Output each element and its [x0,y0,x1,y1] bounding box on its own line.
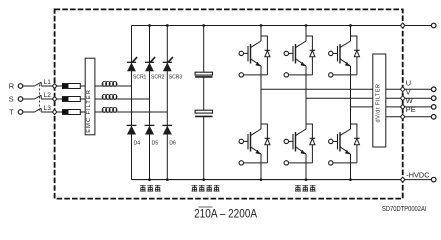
rectifier column 2 [149,26,151,180]
breaker blade R [35,82,42,86]
wire coil1 to bridge [117,85,131,87]
IGBT Q3 top leg3 [329,26,360,78]
inductor coil 1 [102,81,117,86]
wire L2 to fuse [57,98,62,100]
breaker mechanical link (dashed) [38,85,40,113]
wire S to breaker [23,98,35,100]
wire coil3 to bridge [117,111,167,113]
svg-text:SCR3: SCR3 [169,74,183,80]
diode D4 [127,125,137,134]
phase W wire [351,106,373,108]
capacitor C1 [195,72,212,75]
IGBT Q4 bottom leg1 [239,114,270,166]
inductor coil 2 [102,94,117,99]
node diamond DC- [400,177,405,182]
svg-text:210A – 2200A: 210A – 2200A [194,207,258,221]
terminal R [18,84,23,89]
wire T to node [41,111,52,113]
svg-text:D4: D4 [134,140,141,146]
svg-text:T: T [9,107,14,116]
terminal PE [431,115,436,120]
terminal V [431,96,436,101]
svg-text:SD70DTP0002AI: SD70DTP0002AI [382,204,427,213]
terminal T [18,110,23,115]
DC+ top rail [132,25,403,27]
rectifier column 1 [131,26,133,180]
IGBT Q5 bottom leg2 [284,114,315,166]
thyristor SCR2 [145,57,155,71]
junction dots top rail [148,24,151,27]
DC- output wire [403,179,432,181]
node diamond L2 [52,97,57,102]
svg-text:SCR2: SCR2 [151,74,165,80]
diode D5 [145,125,155,134]
node diamond V [400,96,405,101]
junction dots bottom rail [148,178,151,181]
svg-text:L2: L2 [44,92,52,99]
caption DC bus (CJK) [192,185,198,191]
terminal W [431,105,436,110]
W wire out [386,106,432,108]
node diamond L1 [52,84,57,89]
svg-text:S: S [9,94,14,103]
fuse F1 [62,83,80,89]
diode D6 [162,125,172,134]
svg-text:L3: L3 [44,105,52,112]
capacitor middle lead [203,78,205,111]
dv/dt filter box [373,54,386,147]
svg-text:SCR1: SCR1 [133,74,147,80]
node diamond W [400,104,405,109]
svg-text:-HVDC: -HVDC [406,170,430,179]
wire L3 to fuse [57,111,62,113]
EMC filter box [85,58,95,135]
leg 3 column segments [350,75,352,129]
wire T to breaker [23,111,35,113]
fuse F2 [62,96,80,102]
wire EMC to coil 2 [95,98,102,100]
svg-text:V: V [406,87,411,96]
DC- bottom rail [132,179,403,181]
terminal U [431,87,436,92]
node diamond DC+ [400,23,405,28]
wire S to node [41,98,52,100]
svg-text:W: W [406,96,413,105]
wire EMC to coil 1 [95,85,102,87]
node diamond PE [400,114,405,119]
PE wire out [386,116,432,118]
node diamond U [400,87,405,92]
thyristor SCR1 [127,57,137,71]
svg-text:dV/dt FILTER: dV/dt FILTER [375,84,381,123]
svg-text:U: U [406,79,411,88]
caption rectifier (CJK) [140,185,146,191]
leg 1 column segments [260,75,262,129]
rectifier column 3 [166,26,168,180]
wire R to breaker [23,85,35,87]
terminal DC- [431,177,436,182]
wire F1 to EMC filter [80,85,85,87]
capacitor C2 [195,110,212,113]
wire L1 to fuse [57,85,62,87]
node diamond L3 [52,110,57,115]
IGBT Q6 bottom leg3 [329,114,360,166]
capacitor lower lead [203,117,205,180]
inductor coil 3 [102,107,117,112]
DC+ output wire [403,25,432,27]
wire F2 to EMC filter [80,98,85,100]
terminal DC+ [431,23,436,28]
wire EMC to coil 3 [95,111,102,113]
leg 2 column segments [305,75,307,129]
wire F3 to EMC filter [80,111,85,113]
phase U wire [261,88,373,90]
wire R to node [41,85,52,87]
capacitor column upper lead [203,26,205,73]
IGBT Q2 top leg2 [284,26,315,78]
svg-text:D6: D6 [169,140,176,146]
phase V wire [306,97,373,99]
wire coil2 to bridge [117,98,149,100]
terminal S [18,97,23,102]
breaker blade T [35,108,42,112]
IGBT Q1 top leg1 [239,26,270,78]
enclosure dashed border [55,9,403,198]
svg-text:D5: D5 [152,140,159,146]
V wire out [386,97,432,99]
thyristor SCR3 [163,57,173,71]
svg-text:R: R [9,81,14,90]
U wire out [386,88,432,90]
svg-text:PE: PE [406,105,416,114]
fuse F3 [62,109,80,115]
caption inverter (CJK) [295,185,301,191]
svg-text:L1: L1 [44,79,52,86]
svg-text:EMC FILTER: EMC FILTER [86,89,92,133]
breaker blade S [35,95,42,99]
